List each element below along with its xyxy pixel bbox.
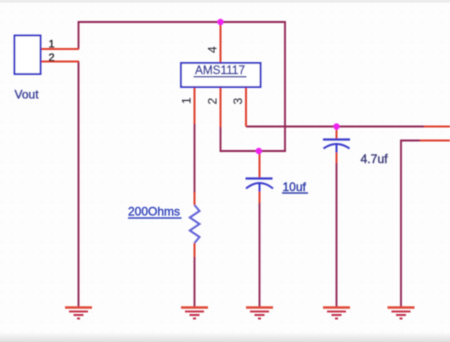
wire net VOUT top horizontal — [79, 21, 286, 23]
svg-text:10uf: 10uf — [283, 180, 307, 194]
svg-text:4.7uf: 4.7uf — [361, 152, 389, 166]
wire 4.7uf to ground — [336, 163, 338, 307]
wire 10uf to ground — [259, 203, 261, 307]
svg-text:2: 2 — [49, 52, 55, 64]
capacitor C2 stem — [336, 144, 338, 153]
wire resistor to ground — [194, 256, 196, 307]
connector J1 body — [15, 36, 41, 75]
capacitor C2 curved plate — [324, 144, 350, 149]
wire net VOUT lower horizontal to pin2 — [221, 150, 287, 152]
connector J1 pin 2 stub — [41, 61, 79, 63]
svg-text:Vout: Vout — [15, 88, 40, 102]
capacitor C2 top lead — [336, 127, 338, 140]
ground symbol 5 — [388, 308, 415, 319]
junction node dot at C2 — [333, 123, 339, 129]
ground symbol 2 — [181, 308, 208, 319]
op-amp U1 AMS1117 body — [181, 63, 261, 87]
resistor R1 zigzag — [190, 205, 200, 243]
wire pin2 lower segment — [220, 127, 222, 152]
wire connector pin2 to ground — [78, 62, 80, 308]
svg-text:4: 4 — [206, 46, 220, 53]
wire connector pin1 riser — [78, 21, 80, 49]
svg-text:200Ohms: 200Ohms — [128, 205, 180, 219]
capacitor C2 bottom lead — [336, 152, 338, 163]
capacitor C1 top plate — [246, 177, 273, 179]
ground symbol 4 — [323, 308, 350, 319]
capacitor C1 curved plate — [246, 183, 273, 189]
capacitor C1 bottom lead — [259, 191, 261, 203]
svg-text:2: 2 — [206, 98, 220, 105]
svg-text:1: 1 — [49, 39, 55, 51]
wire right L red segment — [420, 140, 450, 142]
resistor R1 top lead — [194, 192, 196, 205]
capacitor C1 top lead — [259, 151, 261, 178]
junction node dot at C1 — [256, 148, 262, 154]
junction node dot top — [217, 19, 223, 25]
svg-text:1: 1 — [180, 97, 194, 104]
op-amp U1 pin 2 stub — [220, 87, 222, 127]
ground symbol 1 — [65, 308, 92, 319]
op-amp U1 pin 4 stub — [220, 22, 222, 63]
capacitor C1 stem — [259, 183, 261, 192]
svg-text:AMS1117: AMS1117 — [195, 63, 245, 77]
wire pin3 net horizontal — [246, 126, 424, 128]
capacitor C2 top plate — [323, 138, 350, 140]
wire pin3 net red segment right — [424, 126, 450, 128]
svg-text:3: 3 — [231, 98, 245, 105]
wire pin1 to resistor — [194, 124, 196, 193]
op-amp U1 pin 3 stub — [245, 87, 247, 127]
resistor R1 bottom lead — [194, 243, 196, 257]
op-amp U1 pin 1 stub — [194, 87, 196, 124]
wire right L vertical to ground — [400, 140, 402, 308]
wire net VOUT right vertical — [284, 21, 286, 151]
connector J1 pin 1 stub — [41, 48, 79, 50]
wire right L horizontal — [401, 140, 420, 142]
ground symbol 3 — [246, 308, 273, 319]
